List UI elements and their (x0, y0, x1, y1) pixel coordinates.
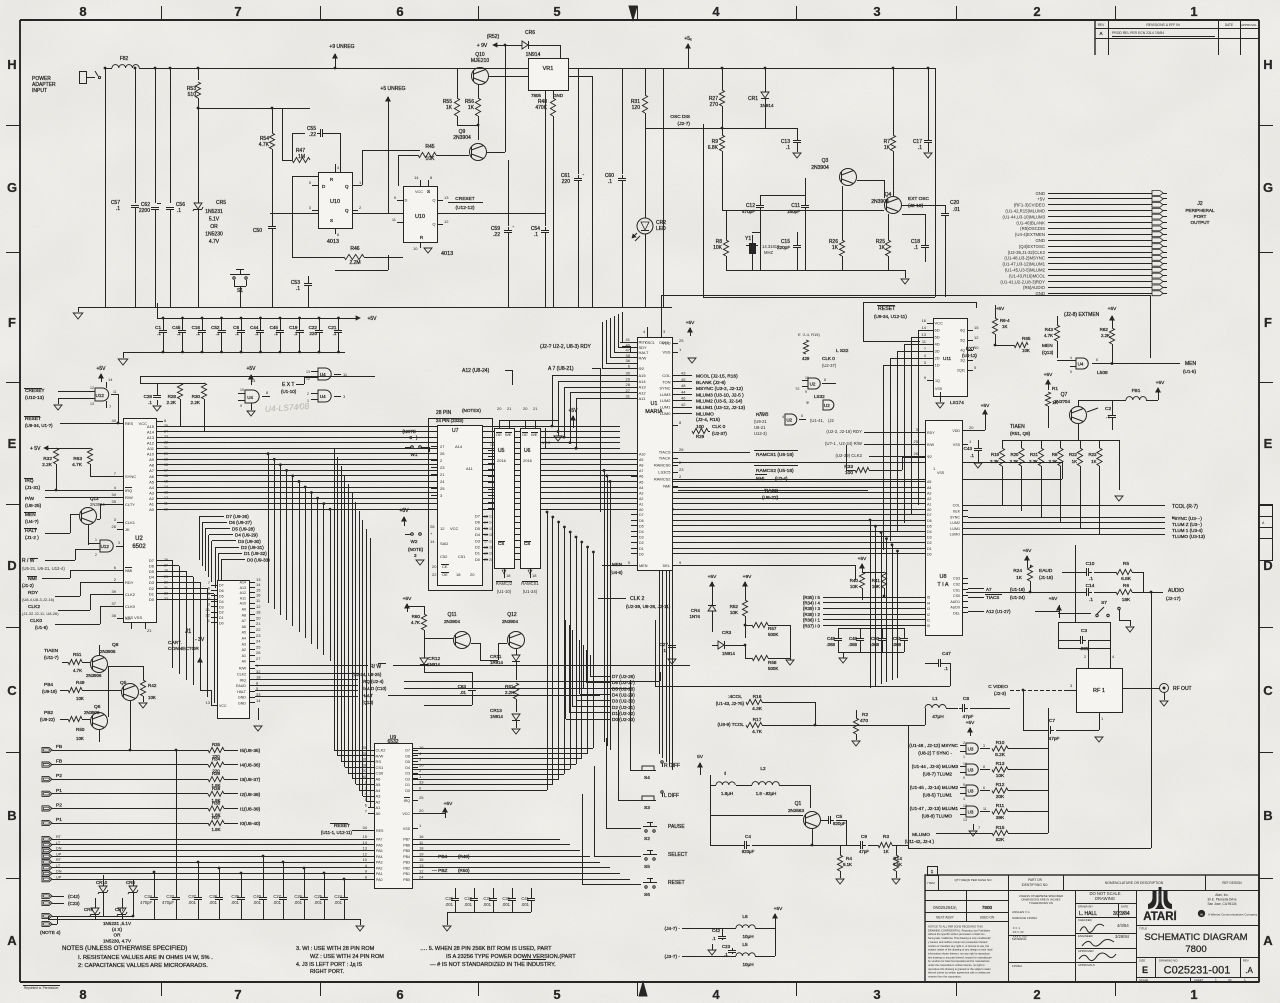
svg-text:R35: R35 (212, 742, 221, 747)
svg-text:470pF: 470pF (742, 209, 755, 214)
svg-text:.001: .001 (334, 900, 343, 905)
svg-text:1N5231 ,5.1V: 1N5231 ,5.1V (103, 921, 132, 926)
svg-text:A8: A8 (242, 613, 246, 617)
svg-text:13: 13 (206, 700, 211, 705)
svg-text:reproduce this drawing is gran: reproduce this drawing is granted or the… (928, 967, 991, 971)
svg-text:A Warner Communications Compan: A Warner Communications Company (1208, 913, 1258, 917)
svg-text:R28: R28 (168, 394, 177, 399)
svg-text:10K: 10K (872, 584, 881, 589)
svg-text:APPROVALS: APPROVALS (1078, 963, 1095, 967)
svg-text:1K: 1K (1091, 459, 1096, 464)
svg-text:U2: U2 (810, 381, 816, 386)
svg-text:this drawing or any part there: this drawing or any part thereof, except… (928, 955, 992, 959)
svg-text:2Qℓ1: 2Qℓ1 (957, 369, 965, 373)
svg-text:(J2-7): (J2-7) (677, 121, 690, 127)
svg-text:R6-4: R6-4 (1000, 318, 1010, 323)
svg-text:C38: C38 (209, 894, 217, 899)
svg-text:13: 13 (164, 491, 168, 495)
svg-text:20: 20 (523, 406, 528, 411)
svg-text:CR5: CR5 (216, 200, 226, 206)
svg-text:.001: .001 (188, 900, 197, 905)
svg-text:23: 23 (679, 467, 684, 472)
svg-text:PA0: PA0 (376, 878, 383, 882)
svg-text:150pF: 150pF (787, 209, 800, 214)
svg-text:VSS: VSS (935, 387, 943, 391)
svg-text:1K: 1K (883, 849, 888, 854)
svg-text:(R38) I 2: (R38) I 2 (803, 612, 821, 617)
svg-text:Q: Q (432, 222, 435, 227)
svg-text:15·15: 15·15 (484, 527, 493, 531)
svg-text:Reprinted w. Permission: Reprinted w. Permission (24, 986, 59, 990)
svg-text:220: 220 (309, 331, 317, 336)
svg-text:16: 16 (419, 745, 424, 750)
svg-text:CS1: CS1 (376, 765, 385, 770)
svg-text:1N5230, 4.7V: 1N5230, 4.7V (103, 938, 132, 943)
svg-text:(NOTES): (NOTES) (462, 408, 481, 413)
svg-text:47pF: 47pF (963, 714, 974, 720)
svg-text:(NOTE): (NOTE) (408, 547, 424, 552)
svg-text:C39: C39 (231, 894, 239, 899)
svg-text:PB2: PB2 (403, 866, 410, 870)
svg-text:.1: .1 (534, 232, 538, 238)
svg-text:L5: L5 (742, 942, 748, 948)
svg-text:470μF: 470μF (162, 900, 174, 905)
svg-text:1N5230: 1N5230 (205, 232, 223, 238)
svg-text:.1: .1 (918, 145, 922, 151)
svg-text:10K: 10K (850, 584, 859, 589)
svg-text:(J2-17): (J2-17) (1166, 596, 1181, 601)
svg-text:6.8K: 6.8K (708, 145, 719, 151)
svg-text:25: 25 (256, 644, 261, 649)
svg-text:Q8: Q8 (112, 642, 119, 648)
svg-text:36: 36 (626, 358, 631, 363)
svg-text:J2: J2 (1197, 201, 1203, 207)
svg-text:G: G (1263, 180, 1273, 195)
svg-text:+5ₓ: +5ₓ (684, 36, 692, 42)
svg-text:.1: .1 (235, 331, 239, 336)
svg-text:Z1: Z1 (147, 628, 152, 633)
svg-text:43: 43 (681, 371, 686, 376)
svg-text:Q12: Q12 (507, 612, 517, 618)
svg-text:(U2-2, J2-16) RDY: (U2-2, J2-16) RDY (826, 429, 862, 434)
svg-text:21: 21 (256, 621, 261, 626)
svg-text:5: 5 (553, 987, 560, 1002)
svg-text:A13: A13 (147, 435, 155, 440)
svg-text:C6: C6 (233, 325, 239, 330)
svg-text:1N914: 1N914 (490, 714, 503, 719)
svg-text:.1: .1 (944, 666, 948, 672)
svg-text:(U1-8): (U1-8) (35, 625, 48, 630)
svg-text:C: C (1263, 683, 1273, 698)
svg-text:RT: RT (56, 858, 62, 862)
svg-text:1N?4: 1N?4 (690, 614, 701, 619)
svg-text:19: 19 (164, 457, 168, 461)
svg-text:10: 10 (805, 376, 809, 380)
svg-text:W2: W2 (411, 539, 418, 544)
svg-text:(U1-47 , J2-13) MLUM1: (U1-47 , J2-13) MLUM1 (910, 806, 959, 811)
svg-text:A2: A2 (927, 497, 931, 501)
svg-text:A1: A1 (242, 654, 246, 658)
svg-text:11: 11 (164, 502, 168, 506)
svg-text:28: 28 (164, 569, 168, 573)
svg-text:9: 9 (805, 390, 807, 394)
svg-text:thereof unless by written agre: thereof unless by written agreement with… (928, 971, 991, 975)
svg-text:LED: LED (656, 226, 666, 232)
svg-text:y issued, and neither receipt: y issued, and neither receipt nor posses… (928, 940, 988, 944)
svg-text:(J2-? U2-2, U8-3) RDY: (J2-? U2-2, U8-3) RDY (540, 344, 592, 350)
svg-text:(U11-7): (U11-7) (44, 655, 59, 660)
svg-text:I2(U8-38): I2(U8-38) (240, 792, 261, 798)
svg-text:+5V: +5V (981, 403, 990, 409)
svg-text:12: 12 (440, 526, 445, 531)
svg-text:D4: D4 (475, 532, 481, 537)
svg-text:(Q13): (Q13) (1042, 350, 1054, 355)
svg-text:1.8 -.82μH: 1.8 -.82μH (756, 791, 777, 796)
svg-text:PA4: PA4 (376, 855, 383, 859)
svg-text:U4: U4 (320, 394, 326, 399)
svg-text:500K: 500K (768, 666, 778, 671)
svg-text:(J3-7) -: (J3-7) - (665, 954, 681, 960)
svg-text:.001: .001 (294, 900, 303, 905)
svg-text:4.7K: 4.7K (72, 462, 83, 468)
svg-text:20: 20 (256, 615, 261, 620)
svg-text:R23: R23 (1088, 452, 1097, 457)
svg-text:VSS: VSS (403, 827, 411, 831)
svg-text:R/W: R/W (239, 667, 247, 671)
svg-text:2.2K: 2.2K (167, 400, 177, 405)
svg-text:14·14: 14·14 (484, 521, 493, 525)
svg-text:D4 (U9-29): D4 (U9-29) (235, 533, 258, 538)
svg-text:CS2: CS2 (953, 583, 960, 587)
svg-text:Q13: Q13 (90, 496, 99, 501)
svg-text:.1: .1 (116, 206, 120, 212)
svg-text:S: S (330, 218, 333, 223)
svg-text:VSS: VSS (662, 350, 670, 355)
svg-text:24 PIN (2333): 24 PIN (2333) (436, 418, 464, 423)
svg-text:MATERIAL: MATERIAL (1012, 937, 1027, 941)
svg-text:D4: D4 (927, 530, 932, 534)
svg-text:RAMCS0: RAMCS0 (654, 463, 671, 468)
svg-text:subject matter of the drawing: subject matter of the drawing or any des… (928, 948, 993, 952)
svg-text:(U9-34, U12-11): (U9-34, U12-11) (874, 314, 907, 319)
svg-text:39: 39 (363, 745, 368, 750)
svg-text:GND: GND (238, 702, 246, 706)
svg-text:12: 12 (444, 219, 449, 224)
svg-text:1D: 1D (935, 363, 940, 368)
svg-text:A7: A7 (242, 619, 246, 623)
svg-text:MLUM1 (U3-12, J2-13): MLUM1 (U3-12, J2-13) (696, 405, 745, 411)
svg-text:R6: R6 (1123, 583, 1129, 589)
svg-text:(4 X): (4 X) (112, 927, 122, 932)
svg-text:3/23/84: 3/23/84 (1113, 911, 1130, 917)
svg-text:10K: 10K (426, 156, 436, 162)
svg-text:.001: .001 (464, 902, 473, 907)
svg-text:(U5-21, U6-21, U12-4): (U5-21, U6-21, U12-4) (22, 566, 65, 571)
svg-text:D: D (1263, 558, 1272, 573)
svg-text:20: 20 (497, 406, 502, 411)
svg-text:Sunnyvale, California. This dr: Sunnyvale, California. This drawing is o… (928, 936, 991, 940)
svg-text:19: 19 (490, 443, 494, 447)
svg-text:P2: P2 (56, 773, 62, 779)
svg-text:23: 23 (164, 435, 168, 439)
svg-text:U12: U12 (96, 393, 105, 398)
svg-text:(U8-5) TLUM1: (U8-5) TLUM1 (923, 793, 953, 798)
svg-text:10μH: 10μH (742, 934, 753, 939)
svg-text:J1: J1 (185, 629, 192, 635)
svg-text:MJE210: MJE210 (471, 58, 490, 64)
svg-text:C: C (7, 683, 17, 698)
svg-text:D2 (U9-31): D2 (U9-31) (241, 545, 264, 550)
svg-text:(U11-42, J2-4 ): (U11-42, J2-4 ) (905, 839, 935, 844)
svg-text:?2: ?2 (795, 386, 800, 391)
svg-text:U3: U3 (968, 767, 974, 772)
svg-text:470pF: 470pF (140, 900, 152, 905)
svg-text:.1: .1 (1089, 597, 1093, 603)
svg-text:I4: I4 (927, 601, 930, 605)
svg-text:A3: A3 (242, 642, 246, 646)
svg-text:RES: RES (125, 421, 134, 426)
svg-text:37: 37 (363, 768, 368, 773)
svg-text:30: 30 (626, 371, 631, 376)
svg-text:14: 14 (251, 378, 256, 383)
svg-text:35: 35 (112, 499, 117, 504)
svg-text:5D: 5D (935, 335, 940, 340)
svg-text:10K: 10K (1022, 348, 1030, 353)
svg-text:CR13: CR13 (490, 708, 502, 713)
svg-text:28: 28 (626, 382, 631, 387)
svg-text:MEN: MEN (612, 562, 622, 567)
svg-text:VSS VSS: VSS VSS (125, 615, 142, 620)
svg-text:(U2-39, U8-26, J2-11): (U2-39, U8-26, J2-11) (626, 604, 671, 609)
svg-text:(U2-37): (U2-37) (822, 363, 837, 368)
svg-text:18: 18 (419, 846, 424, 851)
svg-text:B: B (7, 808, 16, 823)
svg-text:34: 34 (363, 825, 368, 830)
svg-text:R/W: R/W (376, 753, 384, 758)
svg-text:4: 4 (712, 987, 720, 1002)
svg-text:ATARI: ATARI (1143, 911, 1176, 923)
svg-text:without the specific written p: without the specific written permission … (928, 932, 986, 936)
svg-text:L6: L6 (742, 914, 748, 920)
svg-text:(U10-13): (U10-13) (25, 395, 44, 401)
svg-text:24: 24 (419, 874, 424, 879)
svg-text:C51: C51 (458, 554, 466, 559)
svg-text:13: 13 (922, 332, 927, 337)
svg-text:22: 22 (206, 612, 211, 617)
svg-text:.068: .068 (826, 642, 835, 647)
svg-text:R61: R61 (505, 684, 514, 689)
svg-text:(J2-8) EXTMEN: (J2-8) EXTMEN (1064, 312, 1100, 318)
svg-text:E: E (8, 436, 17, 451)
svg-text:D7: D7 (219, 584, 224, 588)
svg-text:LUM1: LUM1 (950, 527, 960, 531)
svg-text:PAUSE: PAUSE (668, 824, 685, 830)
svg-text:R12: R12 (996, 782, 1005, 788)
svg-text:LS32: LS32 (814, 394, 825, 399)
svg-text:U3: U3 (968, 788, 974, 793)
svg-text:I5: I5 (927, 596, 930, 600)
svg-text:R8: R8 (1052, 452, 1058, 457)
svg-text:R15: R15 (996, 825, 1005, 831)
svg-text:U2: U2 (824, 403, 830, 408)
svg-text:QTY REQD PER DASH NO: QTY REQD PER DASH NO (954, 878, 992, 882)
svg-text:UP: UP (56, 875, 62, 879)
svg-text:+5V: +5V (774, 906, 783, 912)
svg-text:(J2-4, R15): (J2-4, R15) (696, 417, 720, 423)
svg-text:SCHEMATIC DIAGRAM: SCHEMATIC DIAGRAM (1144, 932, 1247, 943)
svg-text:R20: R20 (1010, 452, 1019, 457)
svg-text:2D: 2D (935, 356, 940, 361)
svg-text:D6 (U2-27): D6 (U2-27) (612, 680, 635, 685)
svg-text:R63: R63 (73, 456, 82, 462)
svg-text:CS1: CS1 (953, 588, 960, 592)
svg-text:R DIFF: R DIFF (664, 763, 680, 769)
svg-text:A9: A9 (149, 457, 155, 462)
svg-text:3.3K: 3.3K (1009, 459, 1018, 464)
svg-text:(U2-4): (U2-4) (775, 476, 788, 481)
svg-text:CS0: CS0 (953, 594, 960, 598)
svg-text:U4: U4 (320, 372, 326, 377)
svg-text:A14: A14 (240, 581, 246, 585)
svg-text:7: 7 (234, 4, 241, 19)
svg-text:SIZE: SIZE (1139, 959, 1145, 963)
svg-text:4.7K: 4.7K (411, 620, 420, 625)
svg-text:VDD: VDD (662, 341, 671, 346)
svg-text:C52: C52 (440, 554, 448, 559)
svg-text:CHECKED: CHECKED (1078, 918, 1092, 922)
svg-text:R/ W: R/ W (370, 664, 381, 670)
svg-text:DATE: DATE (1121, 905, 1128, 909)
svg-text:LUM2: LUM2 (950, 521, 960, 525)
svg-text:24: 24 (256, 639, 261, 644)
svg-text:A6: A6 (242, 625, 246, 629)
svg-text:4D: 4D (935, 342, 940, 347)
svg-text:C40: C40 (253, 894, 261, 899)
svg-text:EXT: EXT (966, 346, 975, 351)
svg-text:DATE: DATE (1225, 23, 1233, 27)
svg-text:12: 12 (164, 496, 168, 500)
svg-text:+5V: +5V (1108, 306, 1117, 312)
svg-text:7800: 7800 (982, 905, 993, 910)
svg-text:2.2K: 2.2K (505, 690, 514, 695)
svg-text:Q3: Q3 (822, 158, 829, 164)
svg-text:C34: C34 (144, 894, 152, 899)
svg-text:(U8-8) TLUMO: (U8-8) TLUMO (922, 814, 953, 819)
svg-text:D4 (U2-29): D4 (U2-29) (612, 692, 635, 697)
svg-text:(U1-18): (U1-18) (1010, 587, 1025, 592)
svg-text:820μF: 820μF (742, 849, 755, 854)
svg-text:MCOL (J2-15, R16): MCOL (J2-15, R16) (696, 374, 738, 380)
svg-text:R33: R33 (844, 464, 853, 470)
svg-text:RT: RT (56, 835, 62, 839)
svg-text:12: 12 (974, 335, 979, 340)
svg-text:7: 7 (234, 987, 241, 1002)
svg-text:LUM1: LUM1 (660, 405, 671, 410)
svg-text:PB4: PB4 (44, 682, 53, 688)
svg-text:1K: 1K (884, 145, 891, 151)
svg-text:EAUD (C10): EAUD (C10) (362, 686, 387, 691)
svg-text:4.7K: 4.7K (752, 729, 763, 735)
svg-text:CR10: CR10 (96, 880, 108, 885)
svg-text:(U4-12): (U4-12) (962, 353, 977, 358)
svg-text:I2: I2 (927, 613, 930, 617)
svg-text:U6-21: U6-21 (754, 425, 766, 430)
svg-text:C27: C27 (659, 642, 668, 648)
svg-text:1N914: 1N914 (760, 103, 774, 108)
svg-text:A4: A4 (376, 788, 382, 793)
svg-text:by vendors for Atari Incorpora: by vendors for Atari Incorporated and fo… (928, 959, 990, 963)
svg-text:R38: R38 (212, 786, 221, 791)
svg-text:EAUD: EAUD (1039, 568, 1053, 574)
svg-text:MLUMO: MLUMO (696, 411, 714, 417)
svg-text:25: 25 (419, 795, 424, 800)
svg-text:RES: RES (376, 829, 384, 833)
svg-text:.01: .01 (953, 207, 960, 213)
svg-text:(U1-44,U3-10)MLUM3: (U1-44,U3-10)MLUM3 (1002, 214, 1045, 219)
svg-text:MLUMO: MLUMO (912, 832, 930, 838)
svg-text:R/W: R/W (125, 495, 133, 500)
svg-text:3Q: 3Q (960, 359, 965, 363)
svg-text:C5: C5 (836, 814, 842, 820)
svg-text:I3(U8-37): I3(U8-37) (240, 777, 261, 783)
svg-text:12: 12 (419, 869, 424, 874)
svg-text:.A: .A (1245, 966, 1253, 975)
svg-text:+ 9V: + 9V (477, 43, 488, 49)
svg-text:R24: R24 (1013, 568, 1022, 574)
svg-text:.1: .1 (177, 331, 181, 336)
svg-text:39: 39 (112, 589, 117, 594)
svg-text:CS0: CS0 (376, 771, 385, 776)
svg-text:31: 31 (626, 394, 631, 399)
svg-text:LUM2: LUM2 (660, 398, 671, 403)
svg-text:(U1-46)BLANK: (U1-46)BLANK (1016, 220, 1045, 225)
svg-text:10K: 10K (730, 610, 739, 615)
svg-text:PA2: PA2 (376, 866, 383, 870)
svg-text:.068: .068 (892, 642, 901, 647)
svg-text:8: 8 (983, 765, 985, 769)
svg-text:13: 13 (306, 370, 310, 374)
svg-text:LUM0: LUM0 (660, 411, 671, 416)
svg-text:1N914: 1N914 (427, 662, 440, 667)
svg-text:D6: D6 (475, 520, 481, 525)
svg-text:LS3C5: LS3C5 (658, 470, 671, 475)
svg-text:A10: A10 (240, 602, 246, 606)
svg-text:IRQ: IRQ (240, 678, 247, 682)
svg-text:4.3K: 4.3K (752, 706, 763, 712)
svg-text:GND: GND (1035, 238, 1045, 243)
svg-text:R22: R22 (1069, 452, 1078, 457)
svg-text:SDY: SDY (639, 345, 648, 350)
svg-text:.1: .1 (724, 952, 728, 957)
svg-text:2N3904: 2N3904 (811, 165, 829, 171)
svg-text:11: 11 (113, 390, 117, 394)
svg-text:A12 (U1-27): A12 (U1-27) (986, 609, 1011, 614)
svg-text:L2: L2 (760, 766, 766, 772)
svg-text:A11: A11 (147, 446, 155, 451)
svg-text:PA7: PA7 (376, 838, 383, 842)
svg-text:13·13: 13·13 (484, 515, 493, 519)
svg-text:+ 5V: + 5V (30, 446, 41, 452)
svg-text:C22: C22 (309, 325, 318, 330)
svg-text:CLK2: CLK2 (28, 604, 40, 610)
svg-text:470: 470 (860, 718, 868, 724)
svg-text:C025231-001: C025231-001 (1164, 965, 1231, 977)
svg-text:H: H (7, 57, 16, 72)
svg-text:A1: A1 (376, 805, 382, 810)
svg-text:F82: F82 (120, 56, 129, 62)
svg-text:D1 (U2-32): D1 (U2-32) (612, 711, 635, 716)
svg-text:29: 29 (164, 575, 168, 579)
